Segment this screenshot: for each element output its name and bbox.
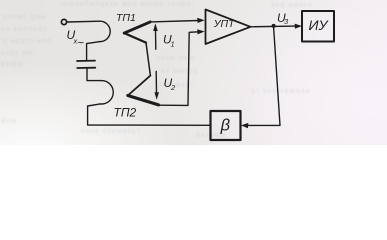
svg-text:УПТ: УПТ — [213, 18, 236, 30]
svg-text:β: β — [220, 116, 231, 134]
svg-text:2: 2 — [170, 83, 176, 92]
svg-text:1: 1 — [171, 40, 175, 49]
svg-text:3: 3 — [284, 17, 289, 26]
svg-text:ТП1: ТП1 — [116, 12, 136, 24]
svg-text:ТП2: ТП2 — [114, 106, 137, 120]
svg-text:ИУ: ИУ — [309, 17, 330, 33]
svg-text:∼: ∼ — [76, 38, 84, 49]
